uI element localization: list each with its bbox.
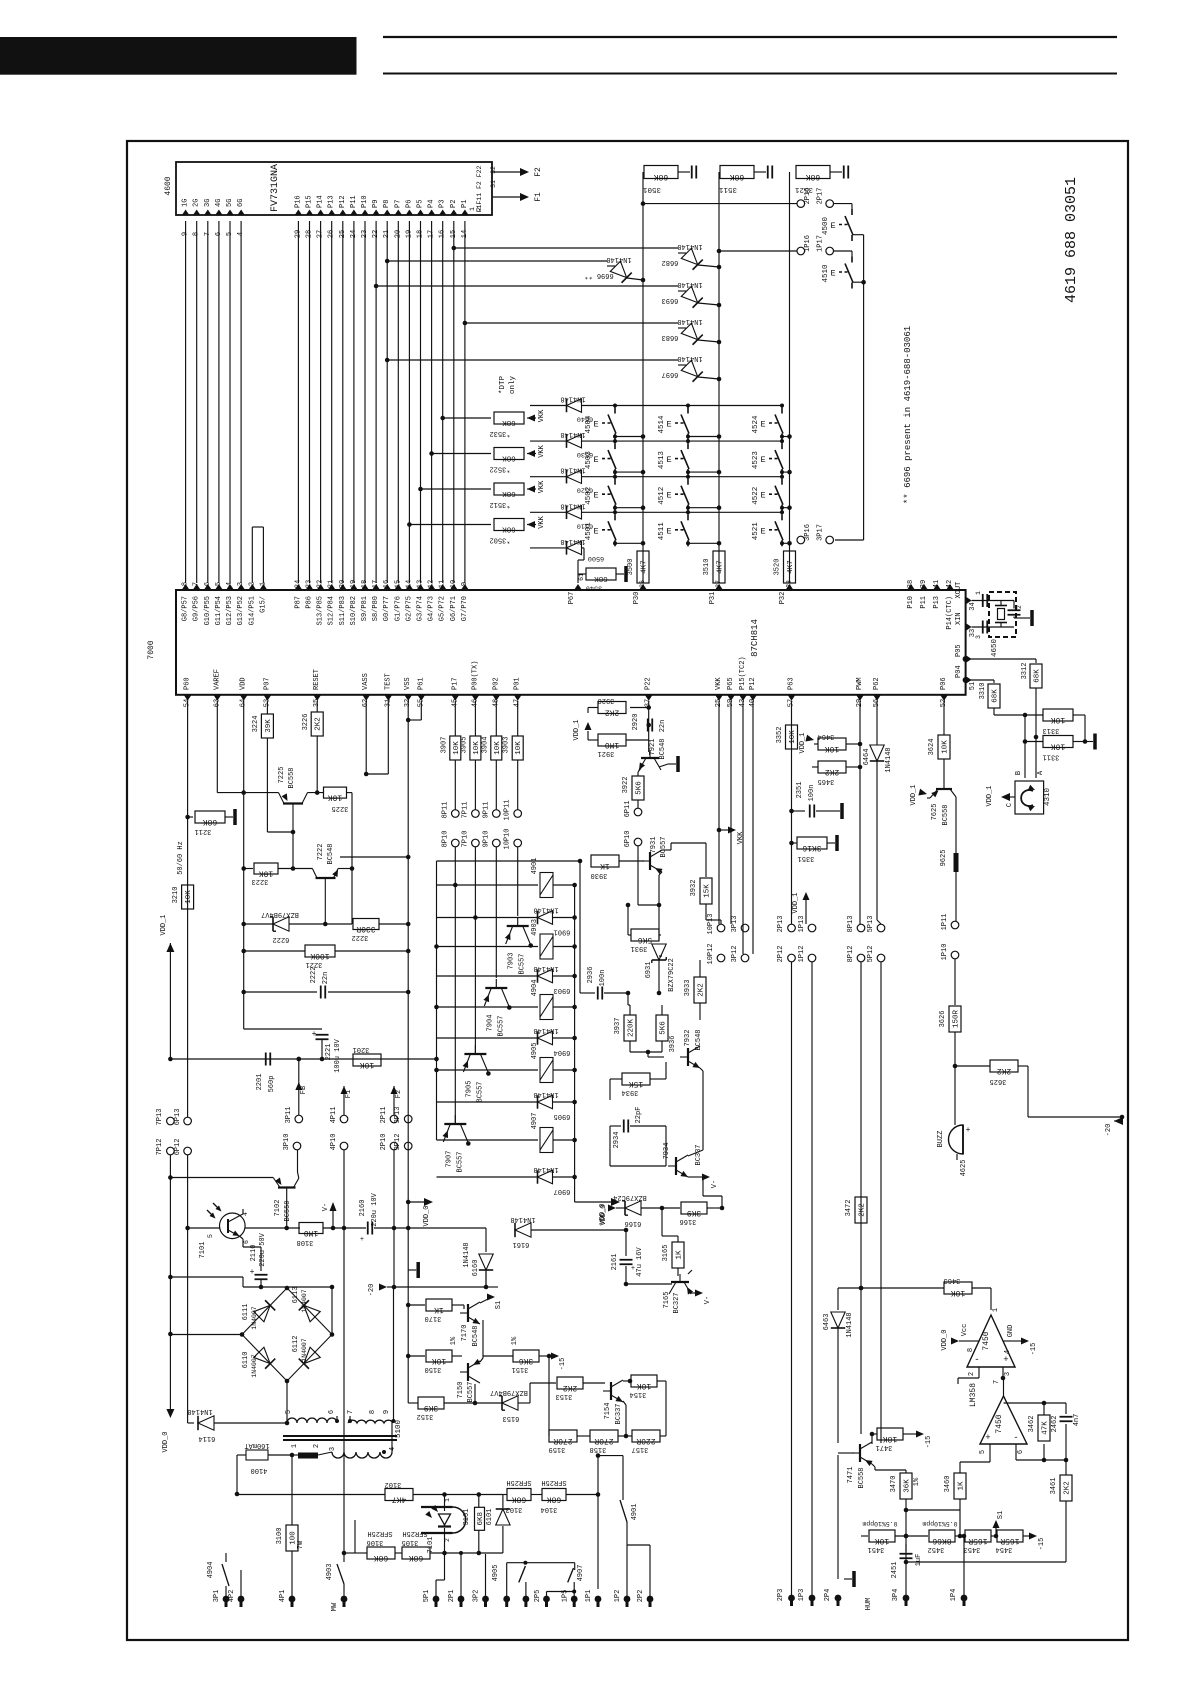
svg-text:7102: 7102 <box>274 1200 282 1217</box>
wire row 6530 cont2 <box>688 440 782 442</box>
supply rail VDD_1 arrow <box>166 943 174 952</box>
svg-text:HUM: HUM <box>865 1598 873 1611</box>
svg-text:-20: -20 <box>1105 1124 1113 1137</box>
U7000 pin 13 (G3/P74) <box>417 584 425 590</box>
svg-text:1N4148: 1N4148 <box>560 501 585 509</box>
wire R3932 down to 10P13 <box>705 904 707 920</box>
switch S4501 <box>607 511 615 513</box>
svg-text:SFR25H: SFR25H <box>506 1478 531 1486</box>
ground near 2P4 <box>844 1578 852 1580</box>
svg-text:7101: 7101 <box>427 1537 435 1554</box>
wire zener to R3933 <box>627 993 629 1005</box>
wire Q7921 base to R3922 <box>638 768 641 772</box>
svg-text:BC558: BC558 <box>284 1200 292 1221</box>
svg-text:P15(TC2): P15(TC2) <box>739 656 747 690</box>
svg-text:6P10: 6P10 <box>624 831 632 848</box>
svg-text:3465: 3465 <box>818 777 835 785</box>
connector 3P11 <box>295 1115 303 1123</box>
transistor Q7907 BC557 <box>444 1123 466 1125</box>
row wire 1K to base Q7931 <box>437 860 581 862</box>
resistor R3210 10K <box>182 885 194 909</box>
wire R3904 down <box>495 760 497 810</box>
svg-text:3463: 3463 <box>944 1276 961 1284</box>
svg-text:7P13: 7P13 <box>156 1109 164 1126</box>
resistor R3153 2K2 <box>557 1377 583 1389</box>
wire P07 down <box>266 701 268 714</box>
svg-text:7: 7 <box>347 1410 355 1414</box>
resistor R3453 165R <box>965 1530 991 1542</box>
svg-text:6697: 6697 <box>662 370 679 378</box>
svg-text:21: 21 <box>328 580 336 588</box>
connector 4P11 <box>340 1115 348 1123</box>
connector 6P13 <box>184 1117 192 1125</box>
resistor R3211 68K <box>188 816 193 818</box>
svg-text:G1/P76: G1/P76 <box>394 596 402 621</box>
wire 10P10 down <box>517 847 519 916</box>
svg-text:68K: 68K <box>1034 669 1042 683</box>
U4600 pin 14 (P1) <box>461 210 469 216</box>
svg-text:3201: 3201 <box>353 1045 370 1053</box>
resistor R3101 6K8 <box>478 1495 480 1508</box>
svg-text:1P5: 1P5 <box>562 1590 570 1603</box>
supply arrow -15 at R3471 <box>916 1431 924 1438</box>
U4600 pin 22 (P9) <box>372 210 380 216</box>
pin MW <box>341 1596 348 1603</box>
svg-text:15K: 15K <box>629 1079 644 1088</box>
connector 3P12 <box>741 954 749 962</box>
wire 7P10 down <box>474 847 476 1054</box>
svg-text:E: E <box>830 221 835 231</box>
U7000 pin 46 (P00(TX)) <box>471 695 479 701</box>
resistor R3905 10K <box>470 736 481 760</box>
svg-text:P11: P11 <box>920 596 928 609</box>
wires under R3937 R3936 <box>629 1041 631 1052</box>
svg-text:1K: 1K <box>600 861 610 870</box>
svg-text:42: 42 <box>946 580 954 588</box>
svg-text:3454: 3454 <box>996 1545 1013 1553</box>
U4600 pin 19 (P6) <box>405 210 413 216</box>
svg-text:1N4148: 1N4148 <box>463 1242 471 1267</box>
svg-text:50/60 Hz: 50/60 Hz <box>177 841 185 875</box>
resistor R3500 4K7 <box>637 551 649 583</box>
wire 3P10 down to Q7102 <box>297 1150 299 1172</box>
supply arrow VDD_0 bottom left <box>166 1409 174 1418</box>
svg-text:3452: 3452 <box>928 1545 945 1553</box>
svg-text:4907: 4907 <box>577 1565 585 1582</box>
switch S4521 <box>781 512 783 514</box>
svg-text:4K7: 4K7 <box>392 1495 407 1504</box>
wire P05 to R3312 <box>963 656 969 662</box>
svg-text:1N4148: 1N4148 <box>560 466 585 474</box>
wire R3460 down <box>959 1510 961 1536</box>
buzzer BZ4625 <box>949 1125 963 1154</box>
diode D6540 1N4148 <box>530 405 566 407</box>
svg-text:+: + <box>360 1236 364 1244</box>
connector 1P12 <box>808 954 816 962</box>
svg-text:+: + <box>966 1126 971 1135</box>
resistor R3106 68K SFR25H <box>395 1552 402 1554</box>
wire B to IR receiver <box>1024 715 1026 778</box>
svg-text:VKK: VKK <box>715 677 723 690</box>
svg-text:4P2: 4P2 <box>228 1590 236 1603</box>
wire P04 to R3310 <box>963 677 969 683</box>
svg-text:P87: P87 <box>294 596 302 609</box>
svg-text:G9/P56: G9/P56 <box>193 596 201 621</box>
svg-text:3540: 3540 <box>586 584 602 592</box>
svg-text:3211: 3211 <box>195 827 212 835</box>
U7000 pin 48 (P02) <box>492 695 500 701</box>
switch S4502 <box>607 476 615 478</box>
U7000 pin 25 (VKK) <box>715 695 723 701</box>
svg-text:BC558: BC558 <box>942 804 950 825</box>
svg-text:9P12: 9P12 <box>394 1134 402 1151</box>
svg-text:VDD_1: VDD_1 <box>160 914 168 935</box>
svg-text:3K6: 3K6 <box>519 1356 534 1365</box>
opamp U7450b LM358 <box>980 1396 1027 1444</box>
svg-text:S10/P82: S10/P82 <box>350 596 358 625</box>
svg-text:BZX79C24: BZX79C24 <box>613 1193 647 1201</box>
U7000 pin 16 (G0/P77) <box>383 584 391 590</box>
svg-text:4522: 4522 <box>752 487 760 505</box>
svg-text:1N4148: 1N4148 <box>560 395 585 403</box>
svg-text:PWM: PWM <box>856 677 864 690</box>
svg-text:4n7: 4n7 <box>1073 1414 1081 1427</box>
bus wire P1 <box>464 221 466 583</box>
wire -20 junction down to transformer 9 <box>393 1287 395 1421</box>
svg-text:9: 9 <box>383 1410 391 1414</box>
resistor R3540 68K <box>586 568 616 580</box>
svg-text:4625: 4625 <box>960 1160 968 1177</box>
svg-text:1%: 1% <box>450 1336 458 1345</box>
wire R3626 down <box>954 1032 956 1075</box>
wire D6464 down <box>876 761 878 920</box>
supply VDD_1 at R3920 <box>588 707 598 709</box>
wire Q7904 collector to row <box>507 1005 512 1010</box>
arrow S1 at R3453 <box>995 1528 997 1536</box>
wire Q7471 emitter to R3470 <box>872 1464 875 1467</box>
svg-text:19: 19 <box>350 580 358 588</box>
svg-text:8: 8 <box>369 1410 377 1414</box>
pin aux 4905a <box>503 1596 510 1603</box>
svg-text:1N4148: 1N4148 <box>606 255 631 263</box>
bus wire grid G2 <box>196 221 198 583</box>
svg-text:V-: V- <box>322 1203 330 1211</box>
svg-text:3903: 3903 <box>503 737 511 754</box>
svg-text:5G: 5G <box>226 199 234 207</box>
wire R3310 down <box>993 708 995 715</box>
resistor R3626 150R <box>949 1006 961 1032</box>
svg-text:G3/P74: G3/P74 <box>417 596 425 621</box>
svg-text:3: 3 <box>237 582 245 586</box>
svg-text:BC337: BC337 <box>695 1144 703 1165</box>
wire R3226 down <box>316 736 318 793</box>
svg-text:P04: P04 <box>955 665 963 678</box>
resistor R3502 68K <box>494 519 524 531</box>
connector 10P13 <box>717 924 725 932</box>
wire XIN to crystal <box>972 626 1014 628</box>
svg-text:2161: 2161 <box>611 1254 619 1271</box>
diode D6682 1N4148 <box>681 248 697 264</box>
U4600 pin 9 (1G) <box>182 210 190 216</box>
U7000 pin 29 (PWM) <box>856 695 864 701</box>
svg-text:68K: 68K <box>374 1553 389 1562</box>
svg-text:3501: 3501 <box>643 185 662 193</box>
row 1228 right <box>245 1227 300 1229</box>
svg-text:6693: 6693 <box>662 296 679 304</box>
svg-text:39K: 39K <box>265 719 273 733</box>
svg-text:68K: 68K <box>502 525 516 533</box>
switch S4504 <box>607 405 615 407</box>
bus wire P14 <box>320 221 322 583</box>
svg-text:14: 14 <box>405 580 413 588</box>
svg-text:61: 61 <box>578 573 585 581</box>
svg-text:3: 3 <box>1004 1372 1012 1376</box>
svg-text:BC558: BC558 <box>288 767 296 788</box>
svg-text:2936: 2936 <box>587 967 595 984</box>
resistor R3471 18K <box>871 1434 873 1442</box>
U7000 pin P04 <box>966 676 972 684</box>
svg-text:P22: P22 <box>645 677 653 690</box>
switch S4524 <box>781 406 783 408</box>
U7000 pin 53 (P07) <box>263 695 271 701</box>
bead L9625 <box>954 853 959 872</box>
wire pin to R3904 <box>495 701 497 736</box>
svg-text:7222: 7222 <box>317 844 325 861</box>
wire 2P2 up <box>649 1545 651 1589</box>
U7000 pin 11 (G5/P72) <box>439 584 447 590</box>
svg-text:3P1: 3P1 <box>213 1590 221 1603</box>
diode D6463 1N4148 <box>837 1288 839 1310</box>
svg-text:100n: 100n <box>808 785 816 802</box>
pin 1P2 <box>624 1596 631 1603</box>
svg-text:GND: GND <box>1007 1325 1015 1338</box>
chassis stub R3540 <box>616 573 624 575</box>
svg-text:2P16: 2P16 <box>804 188 812 205</box>
svg-text:5P12: 5P12 <box>867 946 875 963</box>
svg-text:P05: P05 <box>955 644 963 657</box>
svg-text:BC557: BC557 <box>476 1081 484 1102</box>
svg-text:7934: 7934 <box>663 1143 671 1160</box>
wire VKK down <box>718 701 720 924</box>
svg-text:*3522: *3522 <box>489 465 510 473</box>
transistor Q7905 BC557 <box>464 1053 486 1055</box>
svg-text:3500: 3500 <box>627 559 635 576</box>
pin 3P1 <box>223 1596 230 1603</box>
svg-text:G8/P57: G8/P57 <box>182 596 190 621</box>
connector 9P12 <box>404 1142 412 1150</box>
svg-text:3224: 3224 <box>252 716 260 733</box>
svg-text:S9/P81: S9/P81 <box>361 596 369 621</box>
svg-text:10: 10 <box>450 580 458 588</box>
wire 3106 up <box>354 1520 356 1553</box>
supply arrow VKK row 3502 <box>527 521 535 528</box>
diode D6500 1N4148 <box>530 547 566 549</box>
bus wire P11 <box>353 221 355 583</box>
wire row 6510 cont <box>615 511 688 513</box>
svg-text:P00(TX): P00(TX) <box>471 661 479 690</box>
connector 1P16 <box>797 247 805 255</box>
svg-text:68K: 68K <box>547 1495 562 1504</box>
svg-text:3313: 3313 <box>1043 726 1060 734</box>
svg-text:1M0: 1M0 <box>304 1228 319 1237</box>
resistor R3904 10K <box>491 736 502 760</box>
svg-text:150R: 150R <box>953 1010 961 1029</box>
svg-text:5: 5 <box>979 1450 987 1454</box>
svg-text:SFR25H: SFR25H <box>402 1529 427 1537</box>
wire switch S4500 to rail <box>852 234 864 236</box>
svg-text:18: 18 <box>361 580 369 588</box>
svg-text:BC557: BC557 <box>497 1015 505 1036</box>
svg-text:2P4: 2P4 <box>824 1589 832 1602</box>
svg-text:VDD_0: VDD_0 <box>423 1205 431 1226</box>
svg-text:P7: P7 <box>394 200 402 208</box>
diode D6110 1N4007 <box>254 1347 270 1363</box>
svg-text:3108: 3108 <box>297 1238 314 1246</box>
opamp supply Vcc <box>967 1340 979 1342</box>
svg-text:P14: P14 <box>317 195 325 208</box>
switch S4904 <box>225 1553 227 1562</box>
svg-text:1N4148: 1N4148 <box>533 1026 558 1034</box>
svg-text:VSS: VSS <box>404 677 412 690</box>
wire -20 row to S1 row <box>394 1286 486 1288</box>
svg-text:VKK: VKK <box>538 515 546 528</box>
svg-text:VDD_1: VDD_1 <box>986 785 994 806</box>
diode D6693 1N4148 <box>681 286 697 302</box>
svg-text:7625: 7625 <box>931 804 939 821</box>
wire R3100 to 4P1 <box>291 1551 293 1599</box>
svg-text:3153: 3153 <box>556 1392 573 1400</box>
switch S4513 <box>687 441 689 443</box>
svg-text:3: 3 <box>975 635 982 639</box>
resistor R3201 10K <box>353 1054 381 1066</box>
svg-text:7450: 7450 <box>982 1331 991 1350</box>
resistor R3903 10K <box>512 736 523 760</box>
svg-text:5100: 5100 <box>395 1420 403 1439</box>
wire R3224 to Q7225 base <box>266 738 268 832</box>
U7000 pin 45 (P17) <box>451 695 459 701</box>
connector 2P16 <box>797 200 805 208</box>
svg-text:FB: FB <box>300 1086 308 1094</box>
svg-text:P1: P1 <box>461 200 469 208</box>
resistor R3931 5K6 <box>631 929 659 941</box>
svg-text:BC548: BC548 <box>327 843 335 864</box>
svg-text:4619 688 03051: 4619 688 03051 <box>1063 177 1080 303</box>
U7000 pin 8 (G8/P57) <box>182 584 190 590</box>
U7000 pin 17 (S8/P80) <box>372 584 380 590</box>
diode D6111 1N4007 <box>254 1305 270 1321</box>
svg-text:6101: 6101 <box>486 1509 494 1526</box>
svg-text:BC557: BC557 <box>456 1151 464 1172</box>
capacitor C2351 100n <box>792 810 806 812</box>
svg-text:P02: P02 <box>492 677 500 690</box>
svg-text:1: 1 <box>992 1308 1000 1312</box>
supply arrow V- at R3108 <box>332 1208 334 1228</box>
svg-text:330R: 330R <box>356 924 375 933</box>
svg-text:10K: 10K <box>185 890 193 904</box>
transistor Q7170 BC548 <box>452 1304 464 1306</box>
svg-text:3921: 3921 <box>598 749 615 757</box>
svg-text:9: 9 <box>461 582 469 586</box>
capacitor C2 of X4650 <box>1013 601 1015 609</box>
wire R3624 to Q7625 <box>943 759 945 777</box>
capacitor C2222 22n <box>244 991 317 993</box>
wire 1553 row <box>430 1552 503 1554</box>
U7000 pin 4 (G12/P53) <box>226 584 234 590</box>
wire 1P12 rail down <box>811 962 813 1598</box>
diode D6160 1N4148 <box>406 1226 411 1231</box>
connector 2P10 <box>390 1142 398 1150</box>
svg-text:3470: 3470 <box>890 1476 898 1493</box>
svg-text:10K: 10K <box>328 793 343 802</box>
svg-text:7921: 7921 <box>649 739 657 756</box>
supply VDD_0 arrow at D6166 <box>608 1205 616 1212</box>
svg-text:E: E <box>760 455 765 465</box>
svg-text:3451: 3451 <box>868 1545 885 1553</box>
svg-text:G15/: G15/ <box>259 596 267 613</box>
pin 2P3 <box>788 1595 795 1602</box>
svg-text:3922: 3922 <box>622 777 630 794</box>
wire LED down to 5P1 <box>444 1553 446 1580</box>
transistor Q7102 BC558 <box>278 1186 296 1188</box>
svg-text:6110: 6110 <box>242 1352 250 1369</box>
svg-text:10K: 10K <box>360 1060 375 1069</box>
svg-text:8P13: 8P13 <box>847 916 855 933</box>
svg-text:2462: 2462 <box>1051 1416 1059 1433</box>
wire P60 down <box>187 701 189 1117</box>
svg-text:P86: P86 <box>306 596 314 609</box>
svg-text:6161: 6161 <box>513 1240 530 1248</box>
svg-text:3937: 3937 <box>614 1018 622 1035</box>
rail VDD_0 down <box>169 1155 171 1410</box>
bus wire grid G4 <box>218 221 220 583</box>
svg-text:-: - <box>974 1355 979 1365</box>
svg-text:22n: 22n <box>659 720 667 733</box>
U7000 pin 55 (P61) <box>417 695 425 701</box>
svg-text:6P13: 6P13 <box>174 1109 182 1126</box>
wire R3905 down <box>474 760 476 810</box>
svg-text:1P2: 1P2 <box>614 1590 622 1603</box>
svg-text:3511: 3511 <box>719 185 738 193</box>
wire P22 down <box>648 701 650 740</box>
svg-text:5: 5 <box>285 1410 293 1414</box>
resistor R3226 2K2 <box>311 712 323 736</box>
svg-text:10K: 10K <box>432 1356 447 1365</box>
svg-text:VDD_1: VDD_1 <box>573 719 581 740</box>
supply arrow F2 mid <box>391 1086 398 1094</box>
svg-text:270R: 270R <box>553 1436 572 1445</box>
svg-text:-15: -15 <box>559 1358 567 1371</box>
svg-text:-: - <box>1013 1433 1018 1443</box>
svg-text:2P13: 2P13 <box>777 916 785 933</box>
svg-text:BZX79B4V7: BZX79B4V7 <box>490 1388 528 1396</box>
svg-text:13: 13 <box>417 580 425 588</box>
resistor R3532 68K <box>494 412 524 424</box>
U7000 pin XIN <box>966 623 972 631</box>
svg-text:+: + <box>312 1030 317 1039</box>
ground at Q7921 <box>659 764 668 767</box>
diode D6520 1N4148 <box>530 476 566 478</box>
resistor R3936 5K6 <box>656 1015 668 1041</box>
svg-text:2: 2 <box>313 1444 321 1448</box>
svg-text:6903: 6903 <box>554 986 571 994</box>
svg-text:6222: 6222 <box>273 935 290 943</box>
svg-text:3311: 3311 <box>1043 753 1060 761</box>
pin 3P2 <box>482 1596 489 1603</box>
svg-text:5P1: 5P1 <box>423 1590 431 1603</box>
wire Q7905 collector to row <box>486 1071 491 1076</box>
diode bridge 6110-6113 1N4007 <box>287 1288 332 1335</box>
svg-text:38: 38 <box>907 580 915 588</box>
